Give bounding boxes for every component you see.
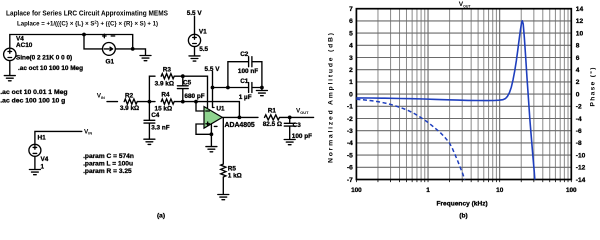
svg-text:-6: -6: [576, 128, 582, 135]
svg-text:4: 4: [349, 43, 353, 50]
svg-text:V4: V4: [41, 156, 49, 163]
svg-text:1: 1: [41, 163, 45, 170]
svg-text:0: 0: [576, 91, 580, 98]
svg-text:C3: C3: [293, 122, 302, 129]
svg-text:1: 1: [349, 79, 353, 86]
svg-text:4: 4: [576, 67, 580, 74]
svg-text:-1: -1: [347, 104, 353, 111]
svg-text:100 nF: 100 nF: [238, 68, 258, 75]
svg-text:5.5 V: 5.5 V: [205, 66, 221, 73]
svg-text:V1: V1: [199, 28, 207, 35]
svg-text:-5: -5: [347, 152, 353, 159]
svg-text:-2: -2: [576, 104, 582, 111]
svg-text:Laplace = +1/(({C} × {L} × S2): Laplace = +1/(({C} × {L} × S2) + ({C} × …: [17, 19, 158, 27]
svg-text:-2: -2: [347, 116, 353, 123]
svg-text:14: 14: [576, 6, 584, 13]
svg-text:0: 0: [349, 91, 353, 98]
svg-text:100: 100: [566, 187, 577, 194]
svg-text:C5: C5: [183, 80, 192, 87]
svg-text:.param L = 100u: .param L = 100u: [83, 161, 133, 168]
svg-text:R3: R3: [163, 67, 172, 74]
svg-text:-4: -4: [576, 116, 582, 123]
svg-text:.ac oct 10 0.01 1 Meg: .ac oct 10 0.01 1 Meg: [0, 89, 67, 96]
svg-text:-3: -3: [347, 128, 353, 135]
svg-text:C2: C2: [240, 51, 249, 58]
svg-text:R4: R4: [161, 92, 170, 99]
svg-text:5.5 V: 5.5 V: [187, 10, 203, 17]
svg-text:1 µF: 1 µF: [239, 94, 252, 101]
svg-text:C1: C1: [240, 78, 249, 85]
svg-text:-14: -14: [576, 177, 586, 184]
svg-text:5.5: 5.5: [199, 46, 208, 53]
svg-text:1: 1: [426, 187, 430, 194]
svg-text:3.9 kΩ: 3.9 kΩ: [155, 80, 174, 87]
svg-text:.param C = 574n: .param C = 574n: [83, 153, 134, 160]
svg-text:.ac dec 100 100 10 g: .ac dec 100 100 10 g: [0, 98, 65, 105]
svg-text:R1: R1: [268, 107, 277, 114]
svg-text:6: 6: [576, 55, 580, 62]
svg-text:-4: -4: [347, 140, 353, 147]
svg-text:Phase (°): Phase (°): [589, 68, 597, 107]
svg-text:2: 2: [349, 67, 353, 74]
svg-text:G1: G1: [106, 58, 115, 65]
svg-text:R2: R2: [125, 93, 134, 100]
svg-text:680 pF: 680 pF: [184, 93, 204, 100]
svg-text:H1: H1: [38, 135, 47, 142]
svg-text:8: 8: [576, 43, 580, 50]
svg-text:-7: -7: [347, 177, 353, 184]
svg-text:82.5 Ω: 82.5 Ω: [263, 121, 282, 128]
svg-text:2: 2: [576, 79, 580, 86]
svg-text:12: 12: [576, 18, 584, 25]
svg-text:100: 100: [351, 187, 362, 194]
svg-text:(a): (a): [157, 212, 165, 219]
svg-text:7: 7: [349, 6, 353, 13]
svg-text:100 pF: 100 pF: [292, 133, 312, 140]
svg-text:Normalized Amplitude (dB): Normalized Amplitude (dB): [328, 33, 335, 163]
svg-text:AC10: AC10: [16, 42, 33, 49]
svg-text:.ac oct 10 100 10 Meg: .ac oct 10 100 10 Meg: [18, 65, 83, 72]
svg-text:-6: -6: [347, 165, 353, 172]
svg-text:10: 10: [576, 30, 584, 37]
svg-text:Sine(0 2 21K 0 0 0): Sine(0 2 21K 0 0 0): [16, 54, 72, 61]
svg-text:3.9 kΩ: 3.9 kΩ: [120, 105, 139, 112]
svg-text:10: 10: [496, 187, 504, 194]
svg-text:.param R = 3.25: .param R = 3.25: [83, 168, 132, 175]
svg-text:Frequency (kHz): Frequency (kHz): [436, 200, 487, 207]
svg-text:-12: -12: [576, 165, 586, 172]
svg-text:1 kΩ: 1 kΩ: [228, 172, 242, 179]
svg-text:3: 3: [349, 55, 353, 62]
svg-text:Laplace for Series LRC Circuit: Laplace for Series LRC Circuit Approxima…: [6, 10, 168, 17]
svg-text:-8: -8: [576, 140, 582, 147]
svg-text:ADA4805: ADA4805: [225, 122, 255, 129]
svg-text:C4: C4: [151, 112, 160, 119]
svg-text:-10: -10: [576, 152, 586, 159]
svg-text:U1: U1: [216, 105, 225, 112]
svg-text:6: 6: [349, 18, 353, 25]
svg-text:3.3 nF: 3.3 nF: [151, 125, 170, 132]
svg-text:(b): (b): [459, 212, 467, 219]
svg-text:5: 5: [349, 30, 353, 37]
